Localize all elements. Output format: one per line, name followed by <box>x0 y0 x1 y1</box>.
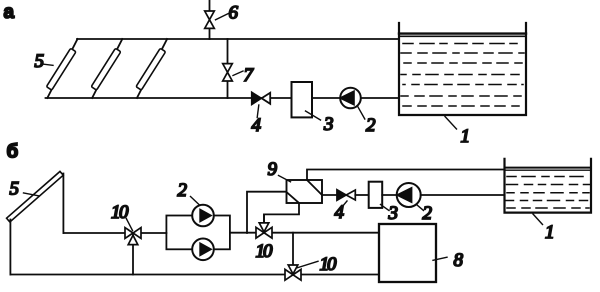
filter 3 (fig b) <box>369 182 383 208</box>
three-way valve 10 (second) <box>256 214 272 238</box>
label 4 (fig a) with leader <box>252 105 262 136</box>
pipe: middle line right of pump block <box>230 232 379 234</box>
label 10 (first) with leader <box>111 202 133 231</box>
tank 1 (fig b) water hatching <box>506 177 591 209</box>
pipe: stub of valve 7 <box>227 39 229 98</box>
svg-text:10: 10 <box>320 254 338 275</box>
label 6 with leader <box>216 3 239 24</box>
svg-text:2: 2 <box>178 180 188 201</box>
label 7 with leader <box>233 65 255 86</box>
collector panel 5 (fig b) <box>7 171 64 222</box>
label 9 with leader <box>268 159 291 182</box>
check valve 4 (fig a) <box>252 92 270 104</box>
label 1 (fig a) with leader <box>445 117 470 148</box>
heat exchanger 9 <box>287 180 323 203</box>
pipe: exchanger bottom hook to valve 10 <box>264 203 299 224</box>
svg-text:4: 4 <box>252 115 262 136</box>
three-way valve 10 (first) <box>125 228 141 275</box>
three-way valve 10 (third) <box>285 265 301 280</box>
filter 3 (fig a) <box>292 82 313 117</box>
label 4 (fig b) with leader <box>335 201 348 223</box>
label 1 (fig b) with leader <box>533 214 555 243</box>
label 3 (fig a) with leader <box>306 111 334 135</box>
pump 2 (top of pair) <box>192 205 214 227</box>
collector riser 2 <box>92 39 122 98</box>
svg-text:а: а <box>4 2 15 23</box>
pipe: collector left drop <box>9 220 11 275</box>
svg-text:1: 1 <box>461 126 471 147</box>
pump block loop <box>166 216 230 250</box>
collector panel (second) <box>91 48 121 90</box>
pipe: top header line (fig a) <box>77 38 399 40</box>
pipe: riser to heat exchanger inlet <box>247 192 287 233</box>
svg-text:4: 4 <box>335 202 345 223</box>
pipe: exchanger top outlet to tank <box>307 170 505 181</box>
pipe: check valve to filter <box>355 194 368 196</box>
label 5 (fig b) with leader <box>10 179 39 200</box>
pipe: bottom return line (fig a) <box>46 97 400 99</box>
svg-text:6: 6 <box>229 3 239 24</box>
label 2 (fig a) with leader <box>358 106 376 136</box>
check valve 4 (fig b) <box>337 190 355 200</box>
svg-text:10: 10 <box>256 241 274 262</box>
svg-text:2: 2 <box>423 203 433 224</box>
collector panel 5 (first) <box>46 48 76 90</box>
pipe: drop from middle line to valve 10 (third) <box>292 233 294 275</box>
tank 1 (fig a) walls <box>399 23 526 115</box>
heat accumulator box 8 <box>379 224 436 282</box>
svg-text:5: 5 <box>10 179 20 200</box>
svg-text:2: 2 <box>366 115 376 136</box>
svg-text:8: 8 <box>454 250 464 271</box>
label 8 with leader <box>433 250 464 271</box>
svg-text:1: 1 <box>545 222 555 243</box>
pipe: collector right drop <box>62 174 64 234</box>
label 10 (third) with leader <box>297 254 337 275</box>
label 3 (fig b) with leader <box>381 203 399 224</box>
tank 1 (fig b) walls <box>505 159 592 213</box>
pump 2 (fig a) <box>340 88 361 109</box>
pipe: stub of valve 6 <box>209 0 211 39</box>
collector riser 1 <box>47 39 77 98</box>
collector riser 3 <box>137 39 167 98</box>
pump (bottom of pair) <box>192 239 214 261</box>
pipe: filter to pump <box>382 194 397 196</box>
label 2 (pumps fig b) with leader <box>178 180 200 205</box>
pump 2 (fig b right) <box>397 183 421 207</box>
valve 6 (air vent) <box>205 11 215 28</box>
pipe: middle line left of pump block <box>63 232 166 234</box>
svg-text:3: 3 <box>388 203 399 224</box>
valve 7 <box>223 64 233 81</box>
svg-text:7: 7 <box>244 65 255 86</box>
label 5 (fig a) with leader <box>35 51 54 72</box>
svg-text:б: б <box>7 142 19 163</box>
pipe: pump to tank (fig b) <box>421 194 505 196</box>
tank 1 water hatching <box>401 44 524 107</box>
pipe: bottom long line (fig b) <box>10 274 379 276</box>
tank 1 water surface <box>399 34 526 37</box>
pipe: exchanger outlet to check valve <box>322 194 338 196</box>
collector panel (third) <box>136 48 166 90</box>
svg-text:9: 9 <box>268 159 278 180</box>
svg-text:5: 5 <box>35 51 45 72</box>
label 2 (fig b right) with leader <box>417 203 433 224</box>
tank 1 (fig b) water surface <box>505 168 592 171</box>
svg-text:3: 3 <box>323 114 334 135</box>
